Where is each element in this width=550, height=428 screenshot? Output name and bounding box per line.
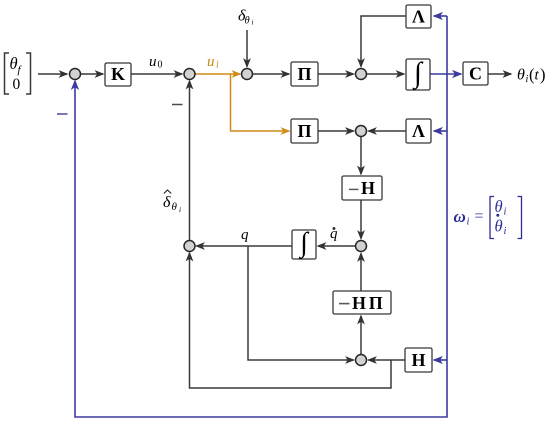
label minus at node2 (172, 104, 183, 106)
svg-text:θ: θ (495, 197, 503, 216)
wire Pi1 to node4 (318, 73, 354, 75)
block Pi1 (291, 62, 318, 86)
svg-text:=: = (475, 208, 484, 225)
wire H branch to node7 (190, 253, 392, 388)
svg-text:Π: Π (297, 121, 311, 141)
wire orange branch to Pi2 (231, 74, 290, 131)
node sum2 (184, 69, 195, 80)
wire H to node8 (369, 359, 406, 361)
svg-text:θ: θ (245, 16, 250, 27)
wire node7 to node2 feedback (189, 81, 191, 241)
label ui orange (207, 54, 219, 71)
node sum7 (184, 241, 195, 252)
node sum4 (356, 69, 367, 80)
svg-text:H: H (411, 350, 425, 370)
svg-text:i: i (216, 60, 219, 71)
svg-text:θ: θ (10, 54, 18, 73)
svg-text:0: 0 (13, 76, 21, 93)
block Lambda2 (406, 119, 431, 143)
svg-text:H: H (361, 178, 375, 198)
svg-text:Π: Π (369, 293, 383, 313)
label delta theta i input (238, 8, 254, 27)
node sum6 (356, 241, 367, 252)
svg-text:K: K (111, 64, 125, 84)
label theta_i(t) output (517, 65, 546, 85)
svg-text:C: C (469, 64, 482, 84)
node sum8 (356, 355, 367, 366)
svg-text:t: t (535, 68, 540, 84)
wire Lambda2 to node5 (369, 130, 407, 132)
block Lambda1 (406, 5, 431, 28)
wire q branch down to node8 (248, 246, 354, 360)
block Pi2 (291, 119, 318, 143)
label delta hat (163, 190, 181, 214)
wire orange u_i node2 to node3 (195, 73, 240, 75)
wire node1 to K (81, 73, 104, 75)
node sum3 (242, 69, 253, 80)
svg-text:Π: Π (297, 64, 311, 84)
wire integrator2 to node7 q line (197, 245, 293, 247)
node sum1 (70, 69, 81, 80)
block integrator1 (406, 57, 430, 90)
wire C to output (488, 73, 511, 75)
svg-text:H: H (352, 293, 366, 313)
label u0 (149, 54, 163, 71)
svg-text:u: u (149, 54, 157, 70)
svg-text:Λ: Λ (412, 7, 425, 27)
svg-text:0: 0 (158, 60, 163, 71)
wire blue into Lambda1 (434, 15, 447, 17)
wire delta input (246, 30, 248, 67)
wire blue into H (434, 359, 447, 361)
label omega_i state vector (454, 197, 522, 239)
block H (405, 348, 432, 372)
wire blue into Lambda2 (434, 130, 447, 132)
svg-text:i: i (252, 19, 254, 27)
wire input arrow (38, 73, 67, 75)
wire blue outer feedback loop (75, 16, 447, 417)
svg-text:u: u (207, 54, 215, 70)
svg-text:θ: θ (172, 201, 178, 213)
svg-text:): ) (540, 65, 546, 84)
block -HPi (333, 291, 391, 314)
svg-text:δ: δ (163, 194, 171, 211)
wire node6 to integrator2 (318, 245, 356, 247)
svg-text:i: i (467, 217, 470, 228)
wire -HPi to node6 (360, 254, 362, 292)
block integrator2 (292, 228, 316, 260)
wire Lambda1 to node4 (361, 16, 406, 67)
svg-text:ω: ω (454, 207, 466, 226)
wire blue integrator to C (430, 73, 461, 75)
svg-text:i: i (504, 207, 507, 218)
svg-text:θ: θ (495, 217, 503, 236)
block C (463, 62, 488, 85)
svg-text:q: q (241, 227, 249, 243)
label input vector theta_f 0 (5, 53, 31, 94)
wire node8 to -HPi (360, 316, 362, 355)
wire node5 to -H (360, 137, 362, 175)
block K (105, 63, 131, 86)
svg-text:i: i (504, 226, 507, 237)
block -H (342, 176, 382, 200)
svg-text:Λ: Λ (412, 121, 425, 141)
node sum5 (356, 126, 367, 137)
svg-text:θ: θ (517, 67, 525, 84)
svg-text:i: i (179, 205, 181, 214)
svg-text:f: f (18, 64, 23, 76)
wire K to node2 (131, 73, 182, 75)
label qdot (330, 226, 338, 242)
label minus blue at node1 (57, 113, 68, 115)
wire node4 to integrator (367, 73, 405, 75)
wire Pi2 to node5 (318, 130, 354, 132)
wire node3 to Pi1 (253, 73, 290, 75)
wire -H to node6 (360, 200, 362, 239)
